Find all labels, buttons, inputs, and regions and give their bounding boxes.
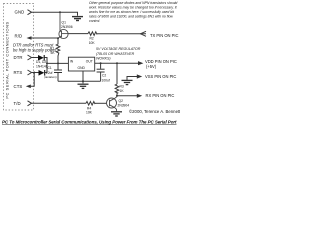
wire CTS loop to RTS: [30, 73, 34, 87]
node R3 top: [116, 62, 118, 64]
node R/D junction: [57, 37, 59, 39]
svg-text:Other general purpose diodes a: Other general purpose diodes and NPN tra…: [89, 1, 177, 5]
node RX junction: [116, 95, 118, 97]
svg-text:2N3904: 2N3904: [118, 104, 130, 108]
wire regulator OUT to VDD: [95, 62, 138, 64]
diode D1: [38, 55, 44, 61]
svg-text:CTS: CTS: [14, 84, 23, 89]
svg-text:(tantalum): (tantalum): [44, 75, 57, 79]
transistor Q2 2N3904: [107, 97, 118, 112]
voltage regulator U1 box: [68, 57, 94, 71]
svg-text:(+5V): (+5V): [146, 64, 157, 69]
ground (main): [78, 84, 89, 88]
svg-text:works fine for me as shown her: works fine for me as shown here. I succe…: [89, 10, 175, 14]
svg-text:be high to supply power: be high to supply power: [13, 47, 57, 52]
svg-text:work. Resistor values may be c: work. Resistor values may be changed too…: [89, 6, 178, 10]
svg-text:1N4148: 1N4148: [36, 64, 48, 68]
svg-text:(78L05 OR WHATEVER: (78L05 OR WHATEVER: [96, 52, 135, 56]
ground (PC GND): [72, 17, 83, 21]
wire regulator GND to ground rail: [82, 71, 84, 83]
wire R4 to Q2 base: [95, 102, 107, 104]
node rail/reg gnd: [82, 80, 84, 82]
pin GND connector: [28, 10, 32, 15]
TX open arrow: [141, 31, 147, 36]
svg-text:10K: 10K: [86, 111, 93, 115]
wire R2 to TX arrow: [97, 33, 146, 35]
svg-text:PC SERIAL PORT CONNECTIONS: PC SERIAL PORT CONNECTIONS: [5, 21, 10, 98]
RX arrow: [137, 94, 142, 98]
wire rail to regulator IN: [47, 62, 68, 64]
diode D2: [39, 70, 45, 76]
svg-text:DTR: DTR: [14, 55, 23, 60]
wire R/D to Q1 collector: [31, 37, 59, 39]
node RTS/CTS junction: [33, 72, 35, 74]
wire D2 cathode to rail: [45, 72, 47, 74]
svg-text:GND: GND: [15, 10, 25, 15]
ground (VSS): [122, 80, 133, 84]
PC serial port connector dashed box: [4, 4, 34, 111]
R/D arrow into PC: [27, 36, 32, 40]
capacitor C2: [100, 63, 102, 69]
CTS arrow into PC: [26, 85, 31, 89]
wire VDD to R3: [116, 63, 118, 84]
svg-text:10K: 10K: [89, 41, 96, 45]
wire RX: [117, 95, 137, 97]
resistor R1: [56, 38, 60, 63]
wire RTS to D2: [32, 72, 40, 74]
svg-text:GND: GND: [78, 66, 86, 70]
svg-text:rates of 9600 and 19200, and s: rates of 9600 and 19200, and settings 8N…: [89, 15, 173, 19]
svg-text:WORKS): WORKS): [96, 56, 111, 60]
wire DTR to D1: [32, 57, 39, 59]
node GND/Q1 emitter junction: [59, 11, 61, 13]
transistor Q1 2N3906: [58, 12, 68, 38]
svg-text:VSS PIN ON PIC: VSS PIN ON PIC: [145, 74, 176, 79]
svg-text:100uf: 100uf: [102, 79, 110, 83]
ground (Q2 emitter): [111, 112, 122, 116]
wire VSS to ground: [127, 77, 138, 81]
node R1 bottom / C1 top junction: [57, 62, 59, 64]
svg-text:PC To Microcontroller Serial C: PC To Microcontroller Serial Communicati…: [2, 119, 177, 124]
resistor R4: [86, 102, 95, 106]
pin T/D connector: [28, 101, 32, 106]
svg-text:2N3906: 2N3906: [61, 25, 73, 29]
ground rail: [58, 80, 101, 82]
svg-text:Q2: Q2: [119, 99, 124, 103]
wire GND to ground: [32, 12, 78, 16]
wire D1 cathode to rail: [45, 58, 48, 73]
svg-text:Q1: Q1: [62, 21, 67, 25]
VDD arrow: [138, 61, 143, 65]
svg-text:22uf: 22uf: [46, 71, 53, 75]
svg-text:C1: C1: [48, 66, 52, 70]
svg-text:R/D: R/D: [15, 34, 23, 39]
svg-text:T/D: T/D: [14, 101, 21, 106]
svg-text:©2000, Terence A. Bennett: ©2000, Terence A. Bennett: [129, 109, 180, 114]
svg-text:C2: C2: [102, 74, 106, 78]
pin DTR connector: [28, 55, 32, 60]
resistor R2: [88, 32, 97, 36]
wire Q1 base to TX: [68, 33, 88, 35]
node +V rail junction: [46, 62, 48, 64]
VSS arrow: [137, 74, 142, 78]
svg-text:RX PIN ON PIC: RX PIN ON PIC: [146, 93, 175, 98]
svg-text:control.: control.: [89, 19, 100, 23]
svg-text:TX PIN ON PIC: TX PIN ON PIC: [150, 33, 178, 38]
capacitor C1: [57, 63, 59, 69]
svg-text:OUT: OUT: [86, 60, 93, 64]
resistor R3: [115, 84, 119, 96]
node C2 top: [100, 62, 102, 64]
svg-text:5V VOLTAGE REGULATOR: 5V VOLTAGE REGULATOR: [96, 47, 141, 51]
wire T/D to R4: [32, 102, 87, 104]
pin RTS connector: [28, 70, 32, 75]
svg-text:RTS: RTS: [14, 70, 23, 75]
